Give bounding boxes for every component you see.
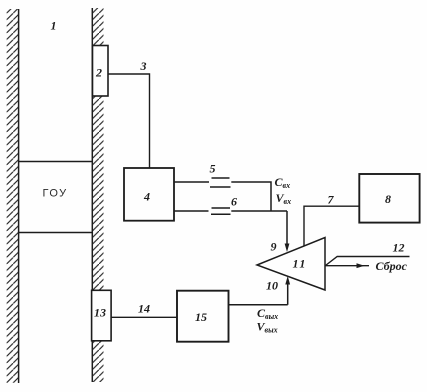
svg-text:2: 2 [95,66,102,80]
wall W1 left chamber wall [7,9,19,383]
wire 3 [108,59,149,168]
comparator U11 triangle [257,238,325,291]
svg-text:Cвх: Cвх [275,175,291,190]
svg-text:10: 10 [266,279,278,293]
capacitor C5 [210,162,231,188]
wire from block 15 to input 10 [229,304,288,306]
svg-text:ГОУ: ГОУ [43,188,68,200]
svg-text:13: 13 [94,306,106,320]
component 2 feedthrough [93,46,109,97]
svg-text:Vвх: Vвх [276,191,292,206]
wire input 10 with arrow [266,276,290,305]
component 13 feedthrough [92,290,112,341]
svg-text:14: 14 [138,302,150,316]
wire C6 to node Cvx [231,210,287,212]
svg-text:8: 8 [385,192,391,206]
svg-text:9: 9 [271,240,277,254]
wire from block 4 bottom output [174,210,209,212]
node Cvyx Vvyx label [257,306,279,335]
svg-text:Сброс: Сброс [376,259,408,273]
block 15 [177,291,229,342]
wire 14 [111,302,177,318]
wire input 9 with arrow [271,211,290,254]
node Cvx Vvx label [275,175,292,206]
svg-text:12: 12 [393,241,405,255]
svg-text:5: 5 [210,162,216,176]
wire 12 reset line [326,241,410,266]
block 8 [359,174,419,223]
wall W2 right chamber wall [92,8,103,382]
svg-text:15: 15 [195,310,207,324]
output arrow Сброс [325,259,408,273]
svg-text:Vвых: Vвых [257,320,278,335]
wire C5 to node Cvx [231,182,271,211]
svg-text:1: 1 [51,19,57,33]
block ГОУ gas-discharge unit [18,162,92,233]
svg-text:11: 11 [293,257,307,271]
svg-text:4: 4 [143,190,150,204]
wire from block 4 top output [174,181,209,183]
svg-text:3: 3 [140,59,147,73]
svg-text:6: 6 [231,195,237,209]
capacitor C6 [211,195,237,215]
block 4 [124,168,174,221]
svg-text:7: 7 [328,193,335,207]
wire 7 [304,193,359,247]
